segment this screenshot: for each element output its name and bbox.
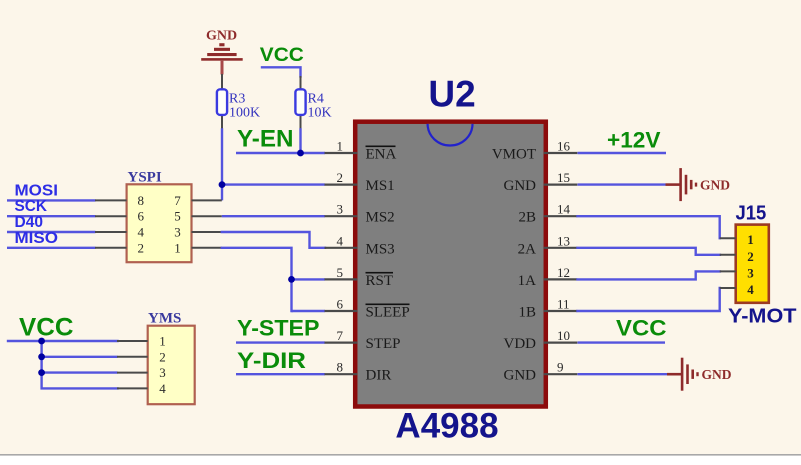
wire 1A to J15 pin3 — [578, 271, 720, 279]
svg-text:SCK: SCK — [15, 198, 48, 215]
junction VCC bus node 3 — [38, 369, 45, 376]
svg-text:4: 4 — [159, 381, 166, 396]
wire YSPI pin5 to MS2 — [222, 215, 325, 217]
svg-text:11: 11 — [557, 297, 570, 312]
svg-text:5: 5 — [337, 265, 344, 280]
junction R3/MS1 node — [219, 181, 226, 188]
wire YSPI pin3 to MS3 — [222, 232, 325, 248]
svg-text:2B: 2B — [518, 210, 536, 226]
ground GND power port — [201, 29, 243, 75]
wire VCC vertical — [42, 341, 118, 388]
svg-text:VCC: VCC — [616, 316, 667, 341]
svg-text:GND: GND — [702, 367, 732, 382]
pin 2 MS1 — [325, 170, 395, 194]
svg-text:MOSI: MOSI — [15, 182, 59, 199]
svg-text:GND: GND — [206, 29, 237, 44]
pin 16 VMOT — [492, 139, 577, 163]
wire VMOT — [578, 152, 667, 154]
connector J15 — [720, 203, 769, 303]
resistor R3 100K — [217, 74, 260, 129]
svg-text:Y-STEP: Y-STEP — [237, 316, 320, 341]
pin 3 MS2 — [325, 202, 395, 226]
pin 1 ENA — [325, 139, 397, 163]
svg-text:5: 5 — [174, 209, 181, 224]
wire MS1 from R3 node to U2 pin2 — [222, 183, 325, 185]
svg-text:1: 1 — [174, 240, 181, 255]
wire to SLEEP — [292, 310, 326, 312]
svg-text:2: 2 — [137, 240, 144, 255]
ground symbol right top — [666, 168, 731, 201]
svg-text:STEP: STEP — [366, 336, 401, 352]
svg-text:2: 2 — [337, 170, 344, 185]
svg-text:15: 15 — [557, 170, 570, 185]
svg-text:2A: 2A — [518, 241, 537, 257]
wire R4 down to ENA net — [299, 128, 301, 153]
svg-text:6: 6 — [137, 209, 144, 224]
svg-text:12: 12 — [557, 265, 570, 280]
junction RST branch node — [288, 276, 295, 283]
svg-text:10K: 10K — [308, 106, 332, 121]
svg-text:GND: GND — [700, 178, 730, 193]
svg-text:4: 4 — [137, 225, 144, 240]
wire VDD — [578, 341, 666, 343]
svg-text:J15: J15 — [736, 203, 767, 225]
pin 7 STEP — [325, 328, 401, 352]
svg-text:1: 1 — [337, 139, 344, 154]
svg-text:VCC: VCC — [260, 45, 304, 66]
svg-text:3: 3 — [174, 225, 181, 240]
svg-text:7: 7 — [174, 193, 181, 208]
svg-text:DIR: DIR — [366, 368, 392, 384]
svg-text:1B: 1B — [518, 305, 536, 321]
power VCC label top — [260, 45, 304, 66]
pin 15 GND — [504, 170, 578, 194]
wire YMS pin3 — [42, 371, 118, 373]
wire YMS pin2 — [42, 356, 118, 358]
svg-text:Y-MOT: Y-MOT — [728, 306, 797, 328]
svg-text:YMS: YMS — [148, 311, 181, 327]
pin 6 SLEEP — [325, 297, 410, 321]
svg-text:6: 6 — [337, 297, 344, 312]
svg-text:VCC: VCC — [19, 314, 74, 342]
connector YMS — [117, 311, 195, 405]
wire MOSI — [7, 199, 96, 201]
svg-text:R4: R4 — [308, 92, 324, 107]
svg-text:1A: 1A — [518, 273, 537, 289]
resistor R4 10K — [295, 76, 331, 129]
svg-text:1: 1 — [159, 334, 166, 349]
svg-text:14: 14 — [557, 202, 571, 217]
svg-text:MS3: MS3 — [366, 241, 395, 257]
svg-text:4: 4 — [337, 233, 344, 248]
wire VCC bar to R4 — [262, 67, 301, 76]
svg-text:RST: RST — [366, 273, 394, 289]
svg-text:Y-DIR: Y-DIR — [237, 348, 306, 373]
svg-text:+12V: +12V — [607, 128, 661, 153]
wire MISO — [7, 247, 96, 249]
svg-text:3: 3 — [159, 365, 166, 380]
pin 12 1A — [518, 265, 578, 289]
pin 4 MS3 — [325, 233, 395, 257]
svg-text:D40: D40 — [15, 214, 44, 231]
pin 9 GND — [504, 360, 578, 384]
svg-text:VDD: VDD — [504, 336, 537, 352]
wire R3 down to YSPI pin7 / MS1 junction — [221, 128, 223, 200]
wire pin9 GND — [578, 373, 668, 375]
svg-text:13: 13 — [557, 233, 570, 248]
svg-text:3: 3 — [337, 202, 344, 217]
ground symbol right bottom — [667, 358, 732, 391]
svg-text:GND: GND — [504, 178, 537, 194]
svg-text:1: 1 — [747, 232, 754, 247]
svg-text:2: 2 — [747, 249, 754, 264]
wire Y-EN to U2 pin1 — [236, 152, 325, 154]
junction VCC bus node 2 — [38, 353, 45, 360]
svg-text:3: 3 — [747, 265, 754, 280]
pin 5 RST — [325, 265, 394, 289]
pin 14 2B — [518, 202, 577, 226]
connector YSPI — [95, 170, 222, 263]
pin 10 VDD — [504, 328, 578, 352]
svg-text:YSPI: YSPI — [128, 170, 162, 186]
svg-text:100K: 100K — [229, 106, 260, 121]
wire 2B to J15 pin1 — [578, 216, 720, 238]
svg-text:8: 8 — [337, 360, 344, 375]
svg-text:10: 10 — [557, 328, 570, 343]
wire 1B to J15 pin4 — [578, 288, 720, 311]
pin 11 1B — [518, 297, 577, 321]
junction R4/Y-EN node — [297, 150, 304, 157]
svg-text:SLEEP: SLEEP — [366, 305, 410, 321]
wire VCC bus — [8, 340, 118, 342]
wire SCK — [7, 215, 96, 217]
wire branch to RST — [292, 278, 326, 280]
wire Y-STEP to STEP — [236, 341, 325, 343]
wire 2A to J15 pin2 — [578, 248, 720, 255]
svg-text:2: 2 — [159, 349, 166, 364]
svg-text:VMOT: VMOT — [492, 147, 536, 163]
junction VCC bus node 1 — [38, 338, 45, 345]
svg-text:9: 9 — [557, 360, 564, 375]
svg-text:MISO: MISO — [15, 230, 59, 247]
svg-text:MS2: MS2 — [366, 210, 395, 226]
op-amp U2 body (A4988 IC box) — [355, 122, 546, 407]
svg-text:GND: GND — [504, 368, 537, 384]
svg-text:A4988: A4988 — [395, 407, 498, 446]
wire pin15 GND — [578, 183, 666, 185]
svg-text:4: 4 — [747, 282, 754, 297]
svg-text:ENA: ENA — [366, 147, 397, 163]
IC notch — [428, 124, 473, 146]
wire Y-DIR to DIR — [236, 373, 325, 375]
svg-text:U2: U2 — [428, 74, 475, 115]
wire YSPI pin1 to RST/SLEEP — [222, 248, 292, 311]
svg-text:Y-EN: Y-EN — [237, 126, 294, 153]
pin 13 2A — [518, 233, 578, 257]
svg-text:16: 16 — [557, 139, 571, 154]
svg-text:8: 8 — [137, 193, 144, 208]
wire D40 — [7, 231, 96, 233]
svg-text:R3: R3 — [229, 92, 245, 107]
svg-text:7: 7 — [337, 328, 344, 343]
pin 8 DIR — [325, 360, 392, 384]
svg-text:MS1: MS1 — [366, 178, 395, 194]
